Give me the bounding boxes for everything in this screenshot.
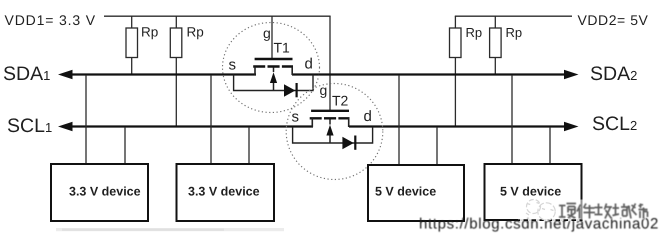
T1 pin s step xyxy=(254,67,256,76)
svg-text:VDD2= 5V: VDD2= 5V xyxy=(578,12,649,28)
svg-text:g: g xyxy=(320,82,328,98)
wire device4 SCL drop xyxy=(549,127,551,164)
wire R3 top lead xyxy=(454,16,456,28)
wire R4 bottom lead xyxy=(494,58,496,75)
wire R1 bottom lead xyxy=(131,58,133,75)
char 硬 xyxy=(559,204,576,219)
svg-text:d: d xyxy=(364,108,372,125)
wire device1 SCL drop xyxy=(124,127,126,164)
svg-text:Rp: Rp xyxy=(466,25,483,40)
wire SCL2 bus xyxy=(349,125,565,127)
transistor T1 (MOSFET, SDA level shifter) xyxy=(223,23,320,113)
T2 gate bar xyxy=(311,110,349,112)
wire R3 bottom lead (crosses SDA2 to SCL2) xyxy=(454,58,456,127)
T1 gate bar xyxy=(255,58,293,60)
T1 pin d step xyxy=(291,67,293,76)
svg-text:T1: T1 xyxy=(274,40,291,56)
device box 3 (5 V device) xyxy=(368,165,464,221)
char 城 xyxy=(613,204,632,219)
svg-text:5 V device: 5 V device xyxy=(500,185,561,199)
T1 body arrow xyxy=(273,68,275,91)
wire SDA1 bus xyxy=(70,73,256,75)
wire T1 gate feed xyxy=(271,16,273,58)
T1 body diode xyxy=(284,84,295,96)
T2 body arrow xyxy=(329,120,331,144)
wire SCL1 bus xyxy=(70,125,313,127)
wire R2 top lead xyxy=(175,16,177,28)
watermark halo xyxy=(518,200,646,220)
char 狮 xyxy=(632,204,648,219)
wire T2 gate feed (crosses SDA2 bus) xyxy=(329,16,331,110)
watermark text 硬件攻城狮 (drawn strokes) xyxy=(559,204,648,219)
wire device1 SDA drop (crosses SCL1) xyxy=(85,75,87,164)
wire R1 top lead xyxy=(131,16,133,28)
watermark halo over box border xyxy=(520,219,581,221)
T1 highlight circle xyxy=(223,23,320,113)
svg-text:Rp: Rp xyxy=(506,25,523,40)
T2 body diode xyxy=(342,137,353,149)
T2 body/source tie xyxy=(293,127,373,143)
svg-text:3.3 V device: 3.3 V device xyxy=(188,185,260,199)
wire VDD2 rail xyxy=(455,15,572,17)
svg-text:Rp: Rp xyxy=(141,25,158,40)
transistor T2 (MOSFET, SCL level shifter) xyxy=(286,82,383,180)
svg-text:Rp: Rp xyxy=(187,25,204,40)
resistor Rp (R3, SCL2 pull-up) xyxy=(450,28,462,58)
wire device2 SCL drop xyxy=(248,127,250,164)
decorative ghost streak under left boxes xyxy=(56,228,284,231)
svg-text:s: s xyxy=(229,57,237,74)
svg-text:g: g xyxy=(263,25,271,41)
watermark logo icon xyxy=(526,200,555,221)
device box 2 (3.3 V device) xyxy=(177,164,275,221)
wire device3 SCL drop xyxy=(436,127,438,165)
svg-text:T2: T2 xyxy=(332,93,349,109)
wire device4 SDA drop (crosses SCL2) xyxy=(511,75,513,164)
wire device2 SDA drop (crosses SCL1) xyxy=(210,75,212,164)
char 攻 xyxy=(595,204,613,219)
svg-text:5 V device: 5 V device xyxy=(375,185,436,199)
T1 channel segments xyxy=(253,65,293,67)
T2 pin s step xyxy=(311,118,313,127)
device box 4 (5 V device) xyxy=(485,164,582,220)
wire SDA2 bus (crossed by T2 gate feed) xyxy=(292,73,565,75)
T2 channel segments xyxy=(310,117,350,119)
wire VDD1 rail xyxy=(104,15,331,17)
wire device3 SDA drop (crosses SCL2) xyxy=(398,75,400,165)
resistor Rp (R1, SDA1 pull-up) xyxy=(126,28,138,58)
resistor Rp (R2, SCL1 pull-up) xyxy=(170,28,182,58)
T2 highlight circle xyxy=(286,84,383,180)
device box 1 (3.3 V device) xyxy=(51,164,148,221)
wire R4 top lead xyxy=(494,16,496,28)
T2 pin d step xyxy=(348,118,350,127)
char 件 xyxy=(577,204,595,219)
T1 body/source tie xyxy=(234,75,313,91)
resistor Rp (R4, SDA2 pull-up) xyxy=(490,28,502,58)
svg-text:VDD1= 3.3 V: VDD1= 3.3 V xyxy=(5,12,96,28)
wire R2 bottom lead (crosses SDA1 to SCL1) xyxy=(175,58,177,127)
svg-text:s: s xyxy=(292,109,300,126)
svg-text:d: d xyxy=(305,56,313,73)
svg-text:3.3 V device: 3.3 V device xyxy=(69,185,141,199)
